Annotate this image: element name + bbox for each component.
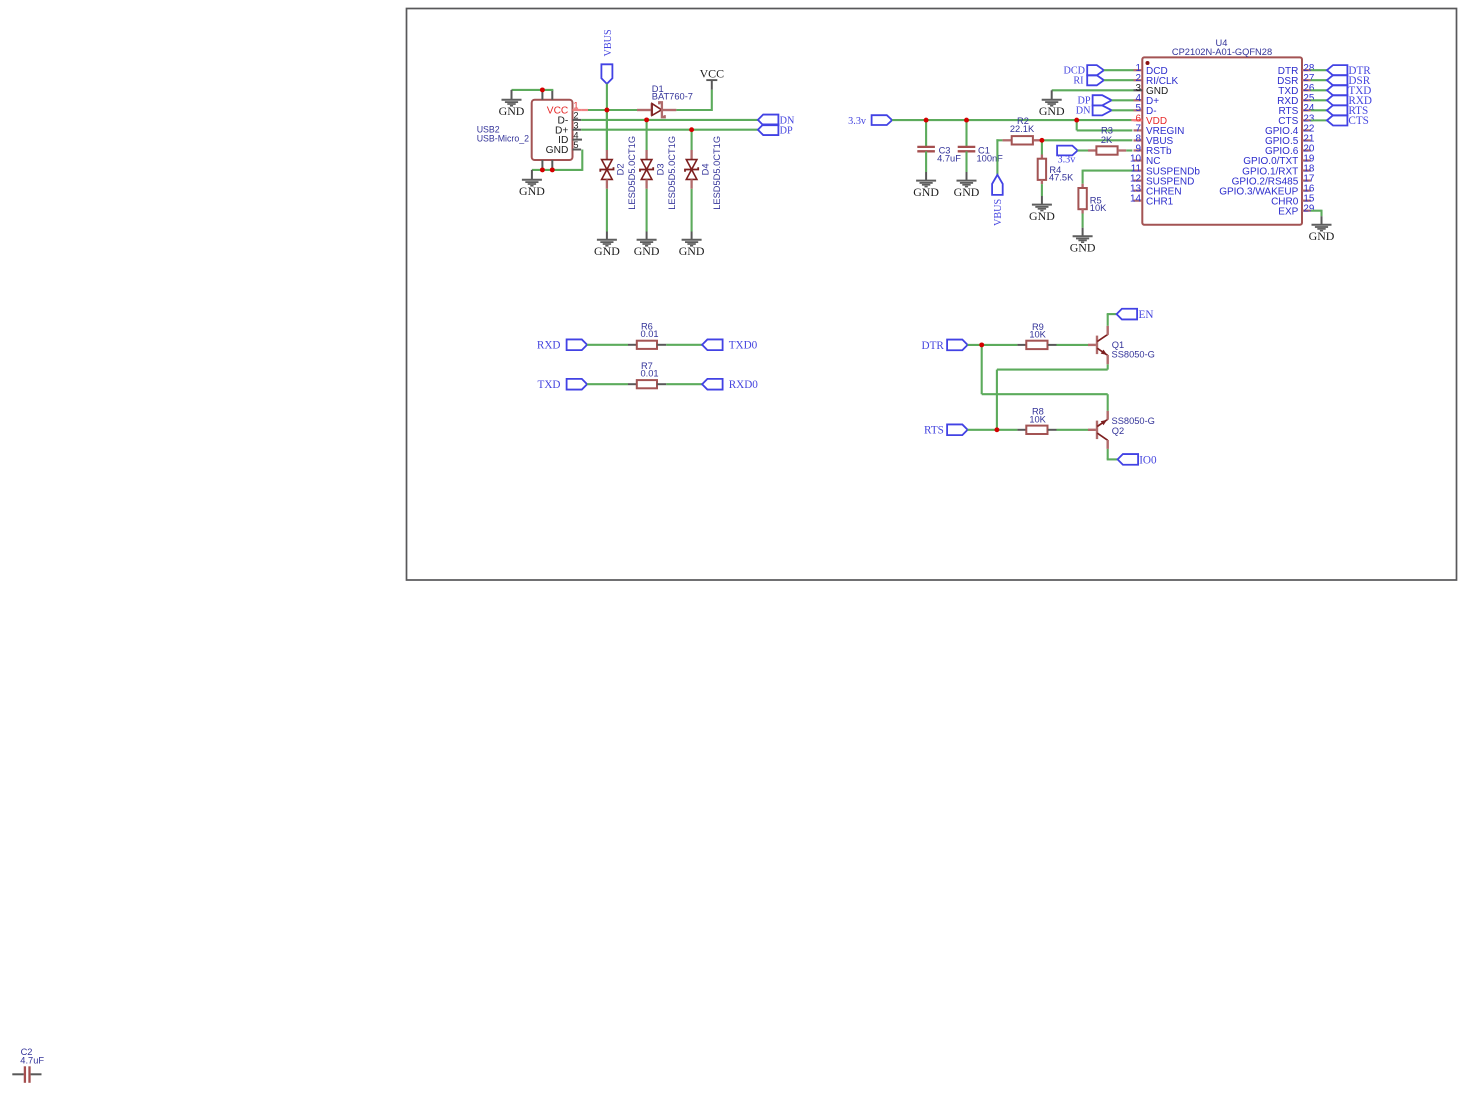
label R2 22.1K — [1010, 116, 1035, 134]
net flag RXD0 — [702, 379, 758, 391]
wire D3 top — [646, 120, 648, 150]
svg-text:GND: GND — [679, 244, 705, 258]
label R7 0.01 — [640, 361, 658, 379]
svg-text:EN: EN — [1139, 309, 1154, 321]
wire R7 to RXD0 — [666, 383, 702, 385]
svg-text:CP2102N-A01-GQFN28: CP2102N-A01-GQFN28 — [1172, 47, 1272, 57]
net flag TXD0 — [702, 339, 758, 351]
junction rail x C1 — [964, 118, 969, 123]
svg-text:10K: 10K — [1029, 330, 1046, 340]
junction rail x VREGIN branch — [1074, 118, 1079, 123]
wire TXD to R7 — [587, 383, 628, 385]
resistor R8 10K — [1017, 426, 1056, 434]
net flag RXD — [537, 339, 587, 351]
net flag DCD — [1063, 65, 1103, 76]
resistor R2 22.1K — [1002, 136, 1042, 144]
connector USB2 USB-Micro_2 body — [532, 100, 573, 160]
svg-text:D2: D2 — [616, 164, 626, 176]
IC U4 right pin numbers — [1303, 63, 1314, 214]
IC U4 left pin names — [1146, 66, 1200, 207]
net flag VBUS top — [601, 29, 614, 84]
svg-text:GND: GND — [913, 185, 939, 199]
net flag RTS input — [924, 424, 968, 436]
wire D3 bottom to gnd — [646, 189, 648, 240]
svg-text:GND: GND — [546, 145, 569, 156]
wire RTS to R8 — [968, 429, 1018, 431]
label Q2 SS8050-G — [1112, 416, 1155, 436]
wire pin24 to RTS flag — [1311, 109, 1327, 111]
wire D+ line usb pin3 to DP — [581, 129, 758, 131]
svg-text:TXD0: TXD0 — [729, 340, 758, 352]
svg-text:10K: 10K — [1090, 203, 1107, 213]
wire RXD to R6 — [587, 344, 628, 346]
svg-text:LESD5D5.0CT1G: LESD5D5.0CT1G — [627, 136, 637, 210]
label R8 10K — [1029, 407, 1046, 425]
wire pin28 to DTR flag — [1311, 69, 1327, 71]
svg-text:VCC: VCC — [700, 67, 725, 81]
wire DTR to Q2 collector — [982, 345, 1108, 411]
wire DCD to pin1 — [1104, 69, 1134, 71]
transistor Q2 SS8050-G — [1088, 411, 1108, 449]
ground usb top — [499, 100, 525, 118]
svg-text:LESD5D5.0CT1G: LESD5D5.0CT1G — [667, 136, 677, 210]
svg-text:RXD0: RXD0 — [729, 379, 759, 391]
wire D- line usb pin2 to DN — [581, 119, 758, 121]
junction DTR — [979, 342, 984, 347]
wire R2 right junction to pin8 — [1042, 139, 1133, 141]
wire DP to pin4 — [1112, 99, 1134, 101]
net flag 3.3v lower — [1057, 146, 1078, 166]
label Q1 SS8050-G — [1112, 340, 1155, 360]
wire pin23 to CTS flag — [1311, 119, 1327, 121]
label D3 LESD5D5.0CT1G — [655, 136, 676, 210]
net flag IO0 — [1118, 454, 1157, 466]
net flag DSR right side — [1327, 75, 1371, 87]
net flag DP — [758, 124, 793, 136]
wire Q1 collector to EN — [1107, 314, 1117, 326]
wire C3 top — [925, 120, 927, 147]
capacitor C2 4.7uF — [12, 1066, 41, 1083]
svg-text:100nF: 100nF — [977, 154, 1004, 164]
svg-text:RI: RI — [1073, 75, 1084, 86]
svg-text:VBUS: VBUS — [603, 29, 614, 57]
IC U4 left pin numbers — [1130, 63, 1141, 204]
resistor R5 10K — [1078, 184, 1086, 214]
power symbol VCC — [700, 67, 725, 81]
svg-text:SS8050-G: SS8050-G — [1112, 349, 1155, 359]
svg-text:GND: GND — [499, 104, 525, 118]
ground usb bottom — [519, 180, 545, 198]
wire D1 to VCC symbol — [676, 80, 711, 111]
svg-text:VBUS: VBUS — [993, 198, 1004, 226]
net flag RXD right side — [1327, 95, 1372, 107]
wire D4 top — [691, 130, 693, 151]
svg-text:47.5K: 47.5K — [1049, 173, 1074, 183]
net flag EN — [1117, 309, 1154, 321]
svg-text:2K: 2K — [1101, 135, 1113, 145]
schematic sheet border frame — [407, 9, 1457, 581]
label C1 100nF — [977, 146, 1004, 164]
ground D3 — [634, 240, 660, 258]
IC U4 CP2102N-A01-GQFN28 body — [1142, 57, 1302, 224]
svg-text:3.3v: 3.3v — [848, 116, 867, 127]
label D1 BAT760-7 — [652, 84, 693, 102]
svg-text:4.7uF: 4.7uF — [20, 1056, 44, 1066]
wire C3 bottom to gnd — [925, 151, 927, 180]
diode D3 LESD5D5.0CT1G TVS — [640, 150, 653, 189]
junction usb bottom right — [550, 167, 555, 172]
svg-text:SS8050-G: SS8050-G — [1112, 416, 1155, 426]
resistor R4 47.5K — [1038, 155, 1046, 185]
wire DTR to R9 — [968, 344, 1018, 346]
IC U4 left pin stubs — [1134, 70, 1143, 200]
svg-text:RTS: RTS — [924, 425, 944, 437]
wire D2 bottom to gnd — [606, 189, 608, 240]
wire R4 top — [1041, 140, 1043, 154]
wire pin25 to RXD flag — [1311, 99, 1327, 101]
label R9 10K — [1029, 322, 1046, 340]
resistor R6 0.01 — [628, 341, 666, 349]
connector USB2 pin numbers 1-5 — [573, 101, 578, 151]
label R3 2K — [1101, 126, 1113, 145]
net flag RTS right side — [1327, 105, 1368, 117]
net flag DP upper — [1077, 95, 1111, 106]
ground C3 — [913, 181, 939, 199]
transistor Q1 SS8050-G — [1088, 326, 1108, 365]
label C3 4.7uF — [937, 146, 961, 164]
svg-text:10K: 10K — [1029, 414, 1046, 424]
net flag DN lower — [1076, 105, 1112, 116]
junction usb top — [540, 87, 545, 92]
svg-text:GND: GND — [1039, 104, 1065, 118]
svg-text:D4: D4 — [700, 164, 710, 176]
wire VBUS vertical — [606, 84, 608, 150]
junction rail x C3 — [924, 118, 929, 123]
resistor R7 0.01 — [628, 380, 666, 388]
label R4 47.5K — [1049, 165, 1074, 183]
svg-text:GND: GND — [594, 244, 620, 258]
wire R9 to Q1 base — [1057, 344, 1089, 346]
svg-text:GND: GND — [519, 184, 545, 198]
diode D2 LESD5D5.0CT1G TVS — [600, 150, 613, 189]
net flag TXD right side — [1327, 85, 1372, 97]
capacitor C3 4.7uF — [917, 147, 935, 151]
resistor R9 10K — [1017, 341, 1056, 349]
ground D4 — [679, 240, 705, 258]
svg-text:CTS: CTS — [1348, 115, 1369, 127]
label D2 LESD5D5.0CT1G — [616, 136, 637, 210]
net flag 3.3v left — [848, 115, 892, 127]
svg-text:Q2: Q2 — [1112, 426, 1124, 436]
connector USB2 pin names — [546, 106, 569, 156]
wire R5 bottom to gnd — [1082, 214, 1084, 237]
label R5 10K — [1090, 195, 1107, 213]
wire usb bottom gnd bus — [532, 150, 582, 180]
wire pin11 SUSPENDb to R5 — [1083, 170, 1134, 184]
svg-text:BAT760-7: BAT760-7 — [652, 92, 693, 102]
svg-text:Q1: Q1 — [1112, 340, 1124, 350]
capacitor C1 100nF — [958, 147, 976, 151]
resistor R3 2K — [1078, 146, 1133, 154]
svg-text:0.01: 0.01 — [640, 369, 658, 379]
label C2 4.7uF — [20, 1047, 44, 1066]
svg-text:LESD5D5.0CT1G: LESD5D5.0CT1G — [712, 136, 722, 210]
IC U4 right pin stubs — [1302, 70, 1311, 210]
svg-text:RXD: RXD — [537, 340, 561, 352]
svg-text:CHR1: CHR1 — [1146, 196, 1174, 207]
wire C1 top — [965, 120, 967, 147]
svg-text:14: 14 — [1130, 194, 1141, 205]
wire C1 bottom to gnd — [965, 151, 967, 180]
diode D4 LESD5D5.0CT1G TVS — [685, 150, 698, 189]
svg-text:EXP: EXP — [1278, 206, 1298, 217]
junction usb bottom left — [540, 167, 545, 172]
label USB2 reference — [477, 124, 529, 143]
svg-text:D3: D3 — [655, 164, 665, 176]
wire pin27 to DSR flag — [1311, 79, 1327, 81]
wire RI to pin2 — [1104, 79, 1134, 81]
label R6 0.01 — [640, 322, 658, 340]
ground C1 — [954, 181, 980, 199]
net flag DTR input — [922, 340, 968, 352]
wire Q1 emitter to RTS net — [997, 364, 1108, 430]
svg-text:29: 29 — [1303, 204, 1314, 215]
wire R4 bottom to gnd — [1041, 184, 1043, 204]
wire DN to pin5 — [1112, 109, 1134, 111]
wire pin3 to gnd — [1052, 90, 1134, 99]
wire R2 left to VBUS flag — [996, 139, 1002, 175]
ground R4 — [1029, 205, 1055, 223]
net flag DTR right side — [1327, 65, 1371, 77]
wire R8 to Q2 base — [1057, 429, 1089, 431]
wire R6 to TXD0 — [666, 344, 702, 346]
net flag TXD — [538, 379, 588, 391]
svg-text:DP: DP — [780, 126, 793, 137]
ground D2 — [594, 240, 620, 258]
diode D1 BAT760-7 schottky — [637, 102, 676, 117]
wire pin26 to TXD flag — [1311, 89, 1327, 91]
svg-text:0.01: 0.01 — [640, 329, 658, 339]
svg-text:USB-Micro_2: USB-Micro_2 — [477, 133, 529, 143]
wire D4 bottom to gnd — [691, 189, 693, 240]
ground EXP — [1309, 225, 1335, 243]
wire usb top shield to gnd — [512, 90, 554, 100]
wire pin29 EXP to gnd — [1311, 210, 1322, 225]
junction D+ x D4 — [689, 127, 694, 132]
connector USB2 pin stubs — [542, 90, 582, 170]
svg-text:GND: GND — [1029, 209, 1055, 223]
net flag VBUS lower — [992, 175, 1004, 226]
wire 3.3v rail to VDD — [892, 119, 1142, 121]
svg-text:GND: GND — [1070, 241, 1096, 255]
label U4 CP2102N-A01-GQFN28 — [1172, 38, 1272, 57]
label D4 LESD5D5.0CT1G — [700, 136, 721, 210]
net flag DN — [758, 115, 795, 127]
IC U4 right pin names — [1219, 66, 1299, 217]
net flag CTS right side — [1327, 115, 1369, 127]
ground pin3 — [1039, 100, 1065, 118]
junction R2 R4 VBUS pin — [1039, 138, 1044, 143]
svg-text:DN: DN — [1076, 106, 1091, 117]
svg-text:GND: GND — [634, 244, 660, 258]
wire D2 top — [606, 110, 608, 150]
junction D- x D3 — [644, 117, 649, 122]
junction RTS — [994, 427, 999, 432]
svg-text:22.1K: 22.1K — [1010, 124, 1035, 134]
svg-text:DTR: DTR — [922, 340, 945, 352]
wire VCC net from usb pin1 — [581, 109, 637, 111]
svg-text:IO0: IO0 — [1139, 454, 1157, 466]
svg-text:GND: GND — [954, 185, 980, 199]
svg-text:TXD: TXD — [538, 379, 561, 391]
ground R5 — [1070, 236, 1096, 254]
wire Q2 emitter to IO0 — [1107, 449, 1118, 460]
wire VREGIN branch — [1077, 120, 1133, 130]
net flag RI — [1073, 75, 1104, 86]
svg-text:3.3v: 3.3v — [1058, 155, 1077, 166]
svg-text:4.7uF: 4.7uF — [937, 154, 961, 164]
junction VBUS x VCC — [604, 108, 609, 113]
svg-text:GND: GND — [1309, 229, 1335, 243]
